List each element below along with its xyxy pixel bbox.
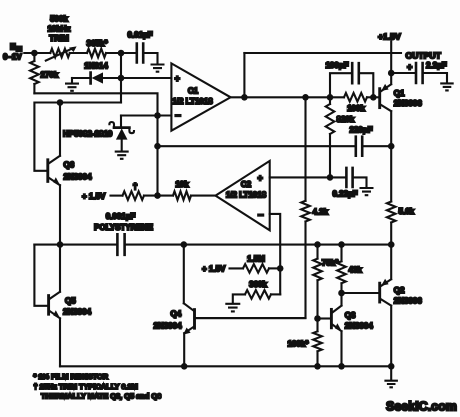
resistor 820k <box>329 97 331 104</box>
capacitor 0.01uF <box>137 44 143 63</box>
transistor Q1 2N3906 <box>378 89 381 108</box>
svg-text:2.2µF: 2.2µF <box>426 61 447 70</box>
node A top <box>118 50 125 57</box>
ground HP5082 <box>115 152 129 159</box>
svg-text:100k: 100k <box>347 104 365 113</box>
wire 1.5V drop <box>390 42 392 74</box>
wire 220pF left <box>158 145 355 147</box>
wire Q4 collector <box>183 245 185 304</box>
ground 2.2uF <box>440 83 454 90</box>
node Q1 collector junction <box>388 143 395 150</box>
transistor Q3 2N3904 <box>330 309 333 327</box>
svg-text:820k: 820k <box>337 115 355 124</box>
ground 0.22uF <box>360 188 374 195</box>
wire 1.5M to node <box>269 267 280 269</box>
svg-text:43k: 43k <box>349 265 363 274</box>
resistor 100k star <box>316 319 318 332</box>
svg-text:2N3906: 2N3906 <box>394 296 423 305</box>
resistor 100k feedback <box>344 93 367 102</box>
op-amp C2 1/2 LT1018 mirrored <box>216 161 270 230</box>
node Q4 collector rail <box>181 241 188 248</box>
wire node A to 0.01uF <box>121 52 137 54</box>
svg-text:2N3904: 2N3904 <box>63 308 92 317</box>
svg-text:2N3904: 2N3904 <box>64 172 93 181</box>
node Q6 emitter rail <box>57 241 64 248</box>
node output to top rail <box>241 94 248 101</box>
wire feedback C1 minus <box>34 93 157 115</box>
wire pot to 365k <box>70 52 87 54</box>
svg-text:220pF: 220pF <box>349 125 372 134</box>
diode HP5082-2810 schottky <box>114 126 129 129</box>
svg-text:100pF: 100pF <box>325 61 348 70</box>
svg-text:2N3904: 2N3904 <box>154 322 183 331</box>
svg-text:OUTPUT: OUTPUT <box>406 51 442 61</box>
svg-text:Q1: Q1 <box>394 89 405 98</box>
wire main rail right <box>125 244 391 246</box>
wire Q3 base <box>318 317 331 319</box>
op-amp C1 1/2 LT1018 <box>171 63 230 130</box>
wire 1.5V to 1.5M <box>230 267 244 269</box>
svg-text:−: − <box>175 111 181 122</box>
node 43k rail <box>338 241 345 248</box>
capacitor 0.001uF polystyrene <box>117 234 124 255</box>
node C1 minus junction <box>154 112 161 119</box>
node 5.6k rail <box>388 241 395 248</box>
resistor 365k <box>87 49 106 58</box>
node bottom rail ground <box>388 363 395 370</box>
svg-text:270k: 270k <box>41 71 59 80</box>
svg-text:0.01µF: 0.01µF <box>127 31 152 40</box>
transistor Q4 2N3904 <box>193 310 196 329</box>
wire rail to Q5 base <box>34 245 47 306</box>
wire main rail left <box>34 244 117 246</box>
wire C1 minus to diode <box>120 116 122 127</box>
capacitor 2.2uF output <box>391 72 415 74</box>
svg-text:0–1V: 0–1V <box>3 53 22 62</box>
svg-text:2N3904: 2N3904 <box>345 321 374 330</box>
svg-text:+1.5V: +1.5V <box>378 31 401 41</box>
wire 1.5V to trim resistor <box>111 195 123 197</box>
node input junction <box>31 50 38 57</box>
transistor Q2 2N3906 <box>378 283 381 302</box>
node 100pF right junction <box>370 94 377 101</box>
svg-text:+ 1.5V: + 1.5V <box>202 264 226 273</box>
svg-text:5.6k: 5.6k <box>399 207 415 216</box>
svg-text:+: + <box>258 173 263 183</box>
wire 0.22uF to ground <box>353 177 367 186</box>
svg-text:0.22µF: 0.22µF <box>332 189 357 198</box>
svg-text:−: − <box>258 211 264 222</box>
wire vertical left bus <box>156 116 158 196</box>
svg-text:SeekIC.com: SeekIC.com <box>386 400 457 414</box>
svg-text:* 1% FILM RESISTOR: * 1% FILM RESISTOR <box>34 372 109 381</box>
node Q1 emitter junction <box>388 70 395 77</box>
resistor 5.6k <box>390 146 392 201</box>
svg-text:360k: 360k <box>249 280 267 289</box>
svg-text:4.2k: 4.2k <box>313 208 329 217</box>
node Q6 collector junction <box>57 99 64 106</box>
node 100k bottom <box>314 363 321 370</box>
svg-text:C1: C1 <box>188 87 199 96</box>
svg-text:HP5082-2810: HP5082-2810 <box>63 129 113 138</box>
svg-text:365k*: 365k* <box>87 39 109 48</box>
svg-text:2N3906: 2N3906 <box>394 99 423 108</box>
ground 0.01uF <box>151 65 165 72</box>
node 4.2k top <box>302 94 309 101</box>
node anode junction <box>118 75 125 82</box>
resistor 270k <box>33 53 35 61</box>
svg-text:Q4: Q4 <box>171 309 182 318</box>
svg-text:TRIM: TRIM <box>49 34 69 43</box>
capacitor 0.22uF <box>346 168 352 187</box>
wire node to Q2 base <box>342 292 379 294</box>
node 1.5M junction <box>277 265 284 272</box>
resistor 1.5M <box>243 264 269 273</box>
ground 1N914 <box>71 78 73 82</box>
wire vertical to top rail <box>243 53 245 97</box>
wire vertical node A to Q6 base wire <box>120 53 122 103</box>
svg-text:1N914: 1N914 <box>84 62 108 71</box>
wire C1 minus input <box>121 114 171 116</box>
svg-text:+ 1.5V: + 1.5V <box>82 192 106 201</box>
svg-text:500k: 500k <box>50 15 68 24</box>
transistor Q5 2N3904 <box>47 296 50 315</box>
capacitor 220pF <box>356 137 362 156</box>
svg-text:+: + <box>175 74 180 84</box>
transistor Q6 2N3904 <box>46 160 49 182</box>
diode D1 1N914 <box>72 77 90 79</box>
wire EIN to input node <box>24 52 50 54</box>
wire 10k to C2 output <box>191 195 216 197</box>
node 75k rail <box>314 241 321 248</box>
svg-text:+: + <box>407 62 412 72</box>
resistor 10k <box>173 191 191 200</box>
svg-text:†: † <box>133 181 138 191</box>
wire bottom rail <box>60 365 391 367</box>
wire 100k to Q1 base <box>367 96 379 98</box>
svg-text:C2: C2 <box>241 180 252 189</box>
wire C2 minus <box>270 214 281 295</box>
node 820k top <box>327 94 334 101</box>
wire top supply rail <box>244 52 401 54</box>
resistor 6.2M trim dagger <box>123 191 144 200</box>
node Q3 base junction <box>314 315 321 322</box>
wire Q6 base loop <box>34 103 121 171</box>
potentiometer 500k 10kHz TRIM <box>50 49 69 58</box>
wire 365k to node A <box>106 52 121 54</box>
resistor 360k <box>271 293 280 295</box>
svg-text:1/2 LT1018: 1/2 LT1018 <box>172 97 213 106</box>
svg-text:1.5M: 1.5M <box>247 254 265 263</box>
wire 0.01uF to ground corner <box>143 53 157 63</box>
svg-text:THERMALLY MATE Q3, Q5 and Q6: THERMALLY MATE Q3, Q5 and Q6 <box>41 392 161 401</box>
resistor 4.2k <box>304 97 306 201</box>
ground bottom rail <box>390 366 392 380</box>
node Q2 base junction <box>338 290 345 297</box>
capacitor 100pF bypass <box>330 73 352 97</box>
svg-text:† 25Hz TRIM TYPICALLY 6.2M: † 25Hz TRIM TYPICALLY 6.2M <box>34 382 138 391</box>
ground 360k <box>225 304 240 312</box>
node 10k junction <box>154 192 161 199</box>
svg-text:Q2: Q2 <box>394 286 405 295</box>
svg-text:Q5: Q5 <box>65 296 76 305</box>
wire trim to 10k <box>144 195 173 197</box>
svg-text:POLYSTYRENE: POLYSTYRENE <box>94 223 153 232</box>
svg-text:10kHz: 10kHz <box>47 25 70 34</box>
wire C1 output <box>231 96 344 98</box>
node Q4 emitter bottom <box>181 363 188 370</box>
node Q3 emitter bottom <box>338 363 345 370</box>
svg-text:100k*: 100k* <box>288 340 310 349</box>
wire 220pF right <box>362 145 391 147</box>
node 220pF junction left <box>154 143 161 150</box>
resistor 75k <box>316 245 318 259</box>
svg-text:0.001µF: 0.001µF <box>106 212 136 221</box>
resistor 43k <box>340 245 342 262</box>
svg-text:10k: 10k <box>175 180 189 189</box>
svg-text:Q3: Q3 <box>345 311 356 320</box>
wire C2 plus <box>270 176 346 178</box>
svg-text:1/2 LT1018: 1/2 LT1018 <box>226 191 267 200</box>
node 0.22uF junction <box>327 174 334 181</box>
svg-text:Q6: Q6 <box>64 160 75 169</box>
